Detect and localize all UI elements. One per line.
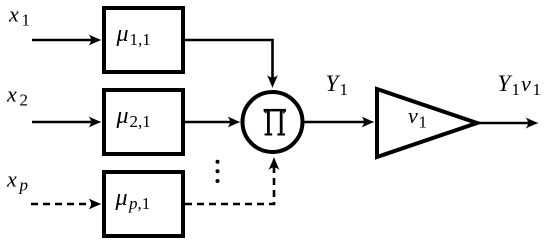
label mu_{2,1} — [116, 103, 151, 131]
svg-text:2,1: 2,1 — [130, 112, 151, 131]
wire input x2 — [32, 117, 102, 128]
svg-text:Y: Y — [498, 71, 513, 96]
svg-text:p: p — [19, 176, 29, 195]
svg-text:1: 1 — [22, 11, 31, 30]
svg-text:p: p — [128, 194, 138, 213]
svg-text:v: v — [521, 71, 531, 96]
vertical dots node — [216, 160, 220, 183]
svg-text:1: 1 — [419, 113, 428, 132]
svg-text:x: x — [8, 2, 19, 27]
label Y1 — [326, 71, 349, 99]
product symbol Pi — [264, 109, 286, 136]
block mu_{p,1} — [104, 172, 183, 236]
label mu_{p,1} — [115, 185, 151, 213]
block mu_{2,1} — [104, 90, 183, 154]
svg-text:1: 1 — [512, 80, 521, 99]
product node circle — [243, 92, 303, 152]
svg-text:x: x — [6, 167, 17, 192]
svg-text:Y: Y — [326, 71, 341, 96]
wire product node to amplifier — [305, 117, 375, 128]
svg-text:μ: μ — [115, 185, 128, 211]
wire block mu_{2,1} to product node — [185, 117, 241, 128]
block mu_{1,1} — [104, 8, 183, 72]
label mu_{1,1} — [116, 21, 151, 49]
svg-text:μ: μ — [116, 103, 129, 129]
svg-text:1,1: 1,1 — [130, 30, 151, 49]
input label x1 — [8, 2, 30, 30]
output label Y1v1 — [498, 71, 542, 99]
svg-text:μ: μ — [116, 21, 129, 47]
wire block mu_{p,1} to product node dashed — [185, 157, 280, 204]
svg-text:x: x — [6, 82, 17, 107]
wire block mu_{1,1} to product node — [185, 40, 278, 88]
svg-text:1: 1 — [340, 80, 349, 99]
svg-text:1: 1 — [533, 80, 542, 99]
input label x2 — [6, 82, 28, 110]
svg-text:2: 2 — [20, 91, 29, 110]
wire input x1 — [32, 35, 102, 46]
wire amplifier to output — [477, 118, 539, 129]
amplifier v1 triangle — [377, 89, 477, 157]
svg-text:,1: ,1 — [138, 194, 151, 213]
wire input xp dashed — [31, 199, 102, 210]
input label xp — [6, 167, 28, 195]
label v1 — [408, 103, 427, 132]
svg-text:v: v — [408, 103, 418, 128]
